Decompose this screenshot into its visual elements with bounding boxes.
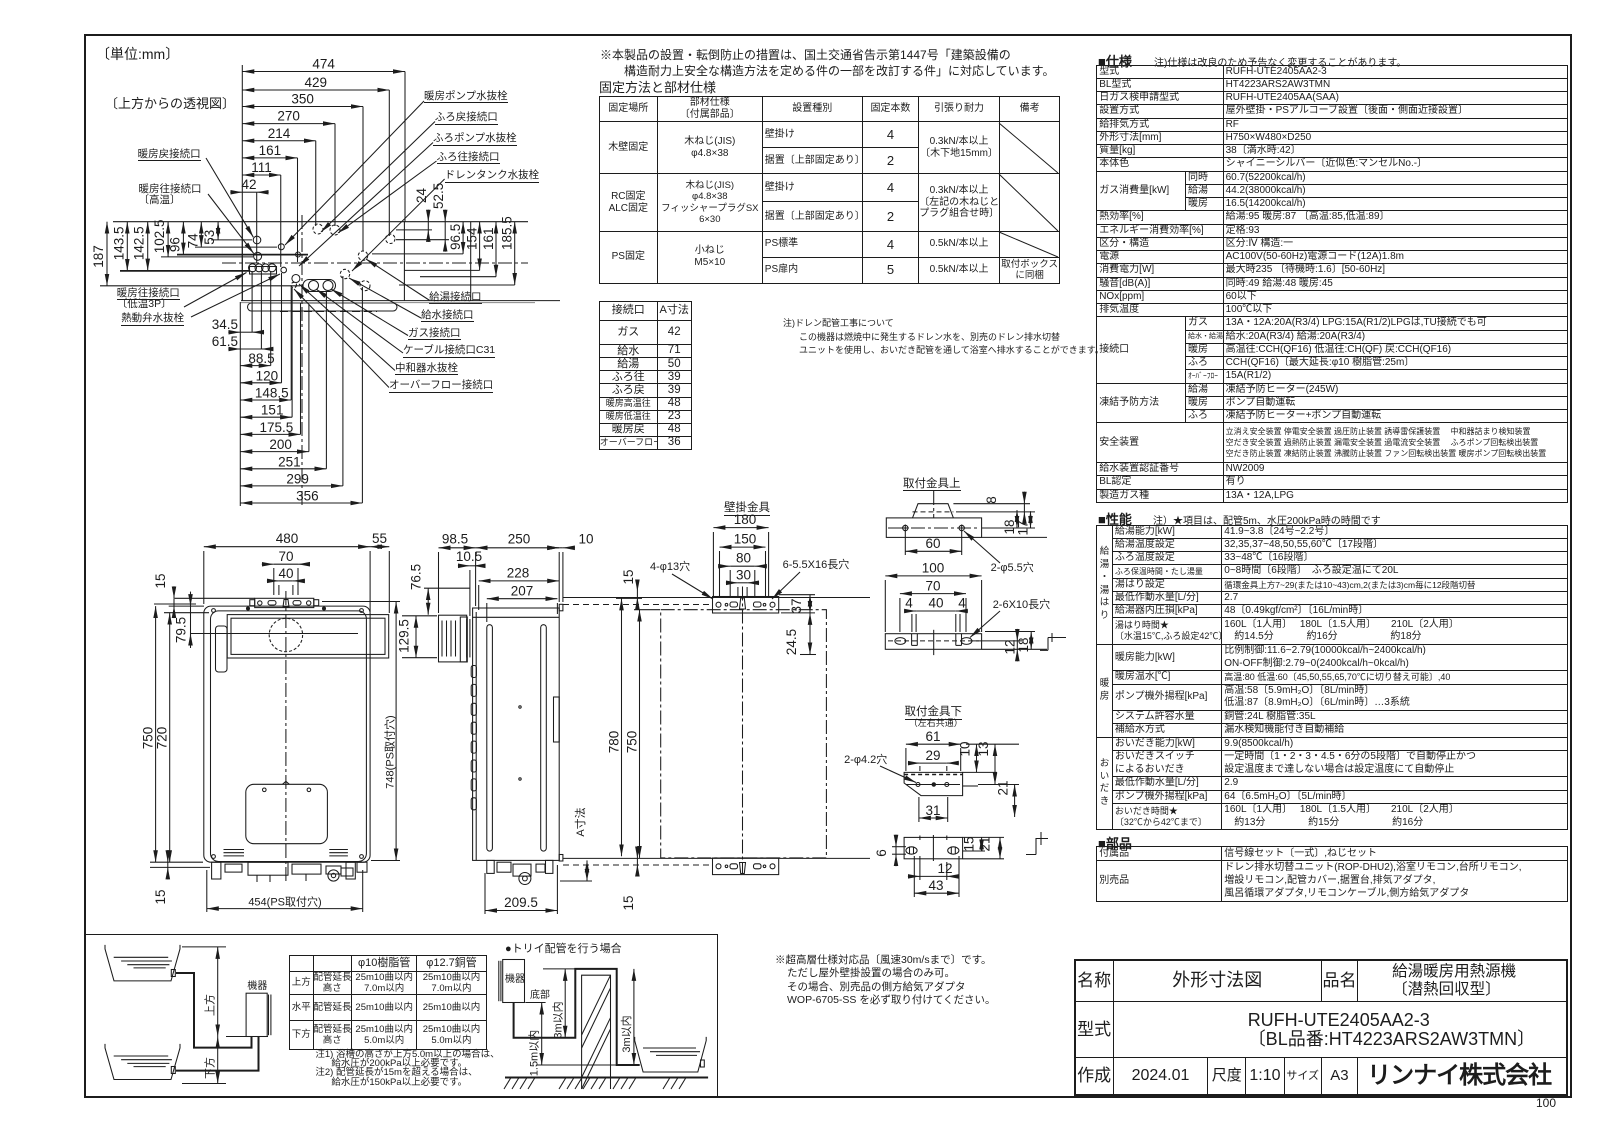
torii: bottom ref line	[525, 1002, 545, 1004]
dim 61.5	[228, 348, 240, 350]
svg-text:13: 13	[976, 741, 991, 756]
fixture captions	[724, 502, 770, 515]
dim 356	[240, 502, 362, 504]
svg-text:4: 4	[905, 596, 913, 611]
dim 24	[427, 210, 429, 222]
fixation method table	[599, 96, 1059, 283]
top corner screws dots	[247, 607, 250, 610]
page number	[1536, 1097, 1556, 1110]
leader danbo-yuki teion	[184, 273, 247, 308]
dim 70	[262, 563, 274, 565]
leader overflow port	[294, 289, 389, 388]
dim 454 PS	[207, 908, 363, 910]
svg-text:6: 6	[874, 849, 889, 857]
svg-text:228: 228	[507, 566, 530, 581]
unit note	[96, 47, 179, 62]
dim 55	[370, 546, 389, 548]
dim 129.5	[415, 616, 417, 658]
dim 350	[242, 106, 363, 108]
svg-text:53: 53	[202, 230, 217, 245]
dim 1.5m	[541, 1003, 543, 1066]
svg-text:29: 29	[925, 748, 940, 763]
svg-text:748(PS取付穴): 748(PS取付穴)	[383, 715, 397, 788]
svg-text:3m以内: 3m以内	[619, 1015, 633, 1052]
svg-text:15: 15	[621, 569, 636, 584]
piping: pipe upper route	[176, 973, 252, 1048]
svg-text:4: 4	[958, 596, 966, 611]
side view: bottom pipes	[487, 860, 494, 873]
keyhole	[283, 600, 289, 608]
svg-text:96: 96	[167, 237, 182, 252]
dim 10.5	[458, 565, 470, 567]
top view horizontal centerline	[222, 262, 528, 264]
torii: unit box	[503, 960, 525, 1003]
dim 474	[242, 71, 405, 73]
svg-text:60: 60	[925, 536, 940, 551]
dim 42	[230, 191, 242, 193]
svg-text:250: 250	[508, 532, 531, 547]
dim 102.5	[167, 222, 169, 257]
dim 250	[476, 547, 560, 549]
wall mount: bottom bracket	[713, 858, 779, 875]
svg-text:21: 21	[996, 780, 1011, 795]
dim 111	[242, 174, 280, 176]
svg-text:79.5: 79.5	[174, 617, 189, 643]
dim 12 (fixture)	[972, 640, 1022, 642]
svg-text:299: 299	[286, 471, 309, 486]
svg-text:3m以内: 3m以内	[551, 1001, 565, 1038]
svg-text:70: 70	[925, 579, 940, 594]
svg-text:10: 10	[578, 532, 593, 547]
dim 480	[204, 546, 370, 548]
dim 15 bottom (mount)	[636, 846, 638, 858]
svg-text:474: 474	[312, 57, 335, 72]
svg-text:43: 43	[928, 878, 943, 893]
svg-text:24: 24	[414, 187, 429, 203]
leader kyusui port	[349, 278, 421, 318]
leader furo pump drain	[299, 143, 433, 267]
torii: tub feed line	[536, 1064, 639, 1066]
dim 30	[726, 582, 738, 584]
side view: rear tabs	[559, 604, 563, 611]
side view: door handle	[554, 697, 560, 742]
piping: pipe lower route	[176, 1037, 259, 1071]
svg-text:251: 251	[278, 454, 301, 469]
torii: wall hatch diagonals	[582, 975, 611, 1035]
side view: left louvre slots	[471, 666, 476, 678]
svg-text:15: 15	[962, 836, 977, 851]
torii: ground line	[505, 1077, 708, 1079]
dim 750 (mount)	[639, 610, 641, 858]
dim 228	[479, 580, 560, 582]
svg-text:55: 55	[372, 531, 387, 546]
leader kyuto port	[366, 259, 429, 300]
bracket tab R	[314, 600, 319, 606]
dim 29	[908, 762, 920, 764]
leader 4-phi13	[672, 574, 713, 599]
svg-text:80: 80	[736, 551, 751, 566]
leader danbo pump drain	[285, 101, 424, 245]
svg-text:214: 214	[268, 126, 291, 141]
svg-text:350: 350	[291, 92, 314, 107]
svg-text:161: 161	[259, 143, 282, 158]
dim 3m right	[633, 969, 635, 1065]
spec header	[1098, 51, 1132, 70]
svg-text:70: 70	[278, 549, 293, 564]
svg-text:34.5: 34.5	[212, 317, 238, 332]
dim 37	[809, 595, 811, 613]
dim 154	[479, 222, 481, 271]
fixation table title	[599, 81, 716, 95]
svg-text:8: 8	[984, 496, 999, 504]
leader cable port	[316, 289, 403, 353]
dim datum line left	[241, 65, 243, 301]
fan outlet circle	[269, 618, 302, 651]
spec table	[1096, 65, 1568, 503]
dim 148.5	[240, 399, 291, 401]
dim 299	[240, 485, 343, 487]
dim 21 (lower2)	[999, 837, 1001, 858]
svg-text:42: 42	[241, 177, 256, 192]
dim 34.5	[228, 331, 240, 333]
svg-text:52.5: 52.5	[431, 183, 446, 209]
front view: top mounting bracket	[255, 598, 314, 607]
front view: bottom louvre slots	[224, 849, 245, 851]
dim 209.5	[485, 910, 557, 912]
hump	[913, 504, 954, 518]
dim 15 top	[173, 586, 175, 598]
dim 180	[713, 527, 768, 529]
svg-text:161: 161	[481, 227, 496, 250]
svg-text:74: 74	[185, 233, 200, 249]
leader 2-6X10	[970, 611, 1000, 638]
dim A dimension	[586, 860, 588, 881]
svg-text:12: 12	[937, 861, 952, 876]
dim 76.5	[427, 588, 429, 615]
piping table	[289, 955, 487, 1050]
dim 200	[240, 451, 309, 453]
svg-text:102.5: 102.5	[152, 220, 167, 254]
svg-text:148.5: 148.5	[255, 386, 289, 401]
svg-text:76.5: 76.5	[409, 564, 424, 590]
leader 2-phi5.5	[964, 531, 1000, 563]
dim 780	[621, 598, 623, 856]
svg-text:180: 180	[734, 512, 757, 527]
piping: upper bath tub	[105, 945, 180, 981]
tub outlet upper	[171, 970, 175, 977]
svg-text:61.5: 61.5	[212, 334, 238, 349]
dim 12 (lower2)	[908, 875, 920, 877]
dim 429	[242, 89, 389, 91]
torii: pipe route	[514, 969, 640, 1065]
svg-text:A寸法: A寸法	[573, 807, 587, 836]
installation note	[600, 48, 1054, 80]
svg-text:12: 12	[1002, 639, 1017, 654]
extension lines of top dims	[404, 72, 406, 222]
leader danbo-modori	[206, 158, 253, 237]
leader 2-phi4.2	[880, 766, 916, 783]
dim 53	[217, 222, 219, 240]
wall mount view: wall lines	[563, 597, 870, 599]
front view: exhaust vent band	[227, 615, 389, 658]
svg-text:480: 480	[276, 531, 299, 546]
dim 100	[885, 575, 981, 577]
svg-text:150: 150	[734, 532, 757, 547]
port labels	[424, 91, 508, 103]
fixture-lower: bottom view	[904, 837, 963, 858]
dim 214	[242, 140, 315, 142]
svg-text:100: 100	[922, 561, 945, 576]
wall mount view: unit dashed outline	[661, 610, 827, 858]
dim 61	[906, 743, 961, 745]
top transparent view: unit outline	[113, 222, 560, 312]
svg-text:270: 270	[277, 109, 300, 124]
dim 8 (hump)	[953, 503, 1030, 505]
piping section frame	[84, 934, 718, 1096]
svg-text:207: 207	[511, 584, 534, 599]
svg-text:40: 40	[928, 596, 943, 611]
leader furo-yuki	[338, 161, 437, 233]
dims 4 40 4	[904, 610, 916, 612]
wall mount view: centerline	[742, 587, 744, 874]
piping: dim kahou	[217, 1037, 219, 1084]
svg-text:154: 154	[465, 227, 480, 250]
svg-text:24.5: 24.5	[784, 629, 799, 655]
svg-text:98.5: 98.5	[442, 532, 468, 547]
dim 74	[200, 222, 202, 247]
svg-text:96.5: 96.5	[448, 224, 463, 250]
L profile icon upper	[1040, 633, 1066, 650]
side view: panel dots	[519, 706, 521, 708]
dim 52.5	[444, 210, 446, 222]
bracket tab L	[250, 600, 255, 606]
top view vertical centerline	[301, 215, 303, 505]
dim 750	[155, 606, 157, 862]
low-temp connector strip	[250, 267, 277, 275]
dim 88.5	[240, 365, 270, 367]
front view: service panel	[246, 784, 328, 843]
leader gas port	[331, 289, 408, 336]
dim 207	[487, 598, 558, 600]
dim 24.5	[809, 613, 811, 655]
dim 15 (lower2)	[981, 837, 983, 851]
fixture-lower: plate	[904, 772, 963, 795]
svg-text:185.5: 185.5	[500, 216, 515, 250]
svg-text:15: 15	[153, 573, 168, 588]
fixture-upper: plate top view	[886, 518, 981, 538]
svg-text:187: 187	[91, 245, 106, 268]
dim datum bottom	[239, 302, 241, 506]
dim 151	[240, 416, 292, 418]
dim 161	[242, 157, 297, 159]
svg-text:143.5: 143.5	[111, 227, 126, 261]
title block	[1074, 959, 1569, 1097]
svg-text:454(PS取付穴): 454(PS取付穴)	[248, 895, 321, 909]
front view: corner screws	[212, 609, 216, 613]
dim 187	[106, 222, 108, 286]
dim 80	[718, 565, 730, 567]
dim 143.5	[126, 222, 128, 271]
svg-text:151: 151	[261, 403, 284, 418]
svg-text:175.5: 175.5	[260, 420, 294, 435]
side view: exhaust duct	[439, 615, 467, 662]
svg-text:720: 720	[155, 727, 170, 750]
wall mount: top bracket	[713, 597, 779, 614]
dim 13	[994, 744, 996, 784]
svg-text:21: 21	[978, 836, 993, 851]
svg-text:下方: 下方	[203, 1057, 217, 1079]
svg-text:10.5: 10.5	[456, 549, 482, 564]
dim 150	[720, 546, 766, 548]
dim 15 bottom	[167, 850, 169, 862]
dim 31	[919, 817, 948, 819]
svg-text:30: 30	[736, 568, 751, 583]
svg-text:200: 200	[269, 437, 292, 452]
piping: unit box left diagram	[246, 993, 267, 1036]
highrise note	[775, 954, 996, 1009]
svg-text:1.5m以内: 1.5m以内	[527, 1030, 541, 1076]
piping: dim jouhou	[217, 947, 219, 1037]
top view inner right line	[470, 222, 472, 301]
svg-text:750: 750	[625, 731, 640, 754]
piping diagram small labels	[247, 982, 267, 993]
dim 18 (fixture lower)	[1030, 632, 1032, 650]
dim 720	[169, 613, 171, 863]
svg-text:17: 17	[1016, 520, 1031, 535]
svg-text:15: 15	[153, 889, 168, 904]
performance header	[1098, 509, 1132, 528]
front view: unit body	[204, 606, 370, 862]
leader danbo-yuki koon	[208, 194, 254, 254]
piping: lower bath tub	[105, 1044, 180, 1080]
dim 185.5	[514, 222, 516, 285]
svg-text:上方: 上方	[203, 994, 217, 1016]
dim 10	[547, 547, 559, 549]
leader netsudoben	[191, 274, 280, 317]
torii labels	[505, 944, 622, 956]
dim 6	[895, 835, 897, 847]
connection ports	[253, 236, 261, 244]
svg-text:40: 40	[278, 566, 293, 581]
svg-text:18: 18	[1016, 637, 1031, 652]
drain piping note	[783, 317, 1104, 359]
top view caption	[105, 97, 235, 111]
dim 98.5	[439, 547, 476, 549]
dim 161	[495, 222, 497, 277]
leader drain tank	[352, 179, 445, 271]
A-dimension table	[599, 301, 692, 450]
vent band left tab	[216, 626, 228, 672]
dim 21 (lower)	[1014, 785, 1016, 818]
dim 10 (lower)	[976, 744, 978, 772]
dim 120	[240, 382, 281, 384]
leader 6-5.5X16	[772, 572, 800, 599]
svg-text:120: 120	[256, 368, 279, 383]
dim 18 (upper)	[982, 527, 1035, 529]
dim 96.5	[462, 222, 464, 254]
leader furo-modori	[321, 122, 435, 233]
dim 175.5	[240, 433, 300, 435]
dim 79.5	[190, 592, 192, 648]
dim 251	[240, 468, 326, 470]
svg-text:37: 37	[789, 598, 804, 613]
dim 96	[182, 222, 184, 255]
L profile icon lower	[1026, 832, 1048, 855]
torii: wall column hatched	[582, 975, 611, 1089]
svg-text:429: 429	[305, 75, 328, 90]
tub outlet lower	[171, 1067, 175, 1074]
dim 15 top (mount)	[636, 580, 638, 592]
dim 17	[1030, 511, 1032, 528]
dim 40	[267, 580, 279, 582]
leader neutralizer drain	[299, 284, 395, 371]
dim 142.5	[147, 222, 149, 271]
dim 270	[242, 123, 335, 125]
dim 43	[914, 892, 959, 894]
svg-text:31: 31	[925, 803, 940, 818]
svg-text:129.5: 129.5	[397, 619, 412, 653]
svg-text:15: 15	[621, 895, 636, 910]
dim 60	[905, 550, 961, 552]
svg-text:142.5: 142.5	[132, 226, 147, 260]
parts table	[1096, 846, 1568, 901]
side view: body	[473, 608, 560, 860]
performance table	[1096, 525, 1568, 831]
fixture-upper: plate front view	[885, 634, 981, 650]
svg-text:780: 780	[607, 731, 622, 754]
torii: right tub	[635, 1037, 707, 1072]
dim 70 (fixture)	[900, 593, 966, 595]
dim 748 PS	[395, 602, 397, 861]
parts header	[1098, 833, 1132, 852]
svg-text:111: 111	[251, 160, 272, 175]
svg-text:750: 750	[141, 727, 156, 750]
front view: centerline	[285, 591, 287, 884]
side view: vertical slots	[487, 625, 493, 851]
svg-text:61: 61	[925, 729, 940, 744]
svg-text:356: 356	[296, 489, 319, 504]
piping notes	[315, 1050, 499, 1087]
front view: bottom pipes cluster	[212, 862, 221, 879]
dim 3m inner left	[564, 969, 566, 1038]
svg-text:209.5: 209.5	[504, 895, 538, 910]
svg-text:88.5: 88.5	[248, 351, 274, 366]
